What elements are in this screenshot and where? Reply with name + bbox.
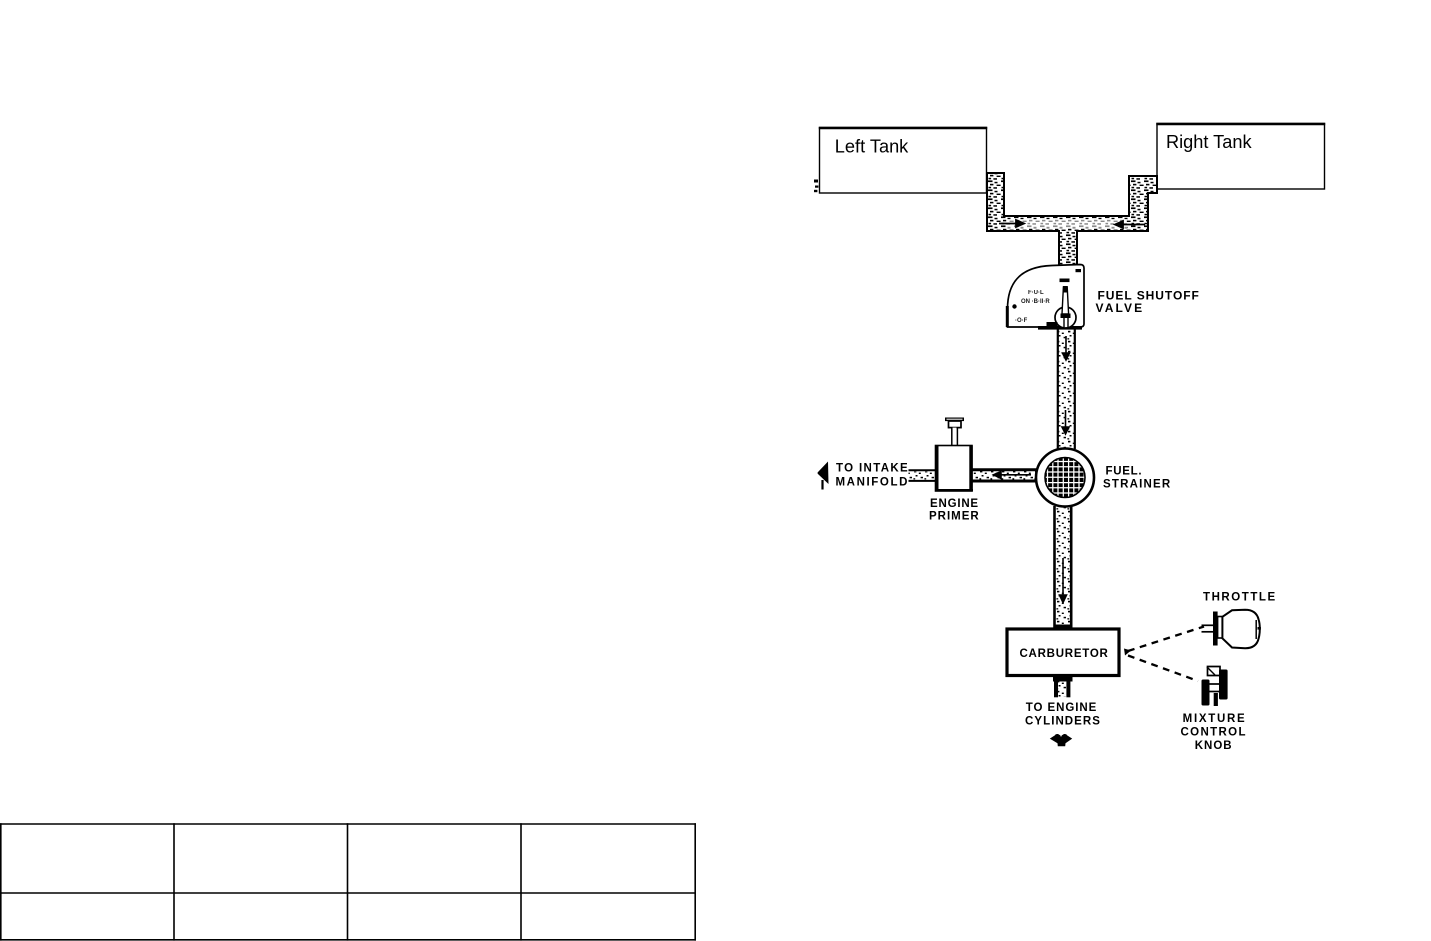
- svg-text:Right Tank: Right Tank: [1166, 132, 1253, 152]
- svg-text:TO ENGINE: TO ENGINE: [1026, 702, 1098, 714]
- svg-text:·O·F: ·O·F: [1015, 318, 1028, 324]
- svg-text:ENGINE: ENGINE: [930, 498, 979, 510]
- svg-text:PRIMER: PRIMER: [929, 511, 980, 523]
- svg-text:CARBURETOR: CARBURETOR: [1020, 648, 1109, 660]
- svg-text:F·U·L: F·U·L: [1028, 290, 1044, 296]
- svg-text:CONTROL: CONTROL: [1181, 727, 1247, 739]
- svg-text:FUEL.: FUEL.: [1106, 465, 1143, 477]
- svg-text:KNOB: KNOB: [1195, 740, 1233, 752]
- svg-text:STRAINER: STRAINER: [1103, 479, 1171, 491]
- svg-text:MANIFOLD: MANIFOLD: [836, 477, 909, 489]
- svg-text:ON ·B·II·R: ON ·B·II·R: [1021, 299, 1050, 305]
- svg-text:CYLINDERS: CYLINDERS: [1025, 716, 1101, 728]
- svg-text:THROTTLE: THROTTLE: [1203, 592, 1277, 604]
- svg-text:Left Tank: Left Tank: [835, 136, 909, 156]
- svg-text:TO INTAKE: TO INTAKE: [836, 463, 909, 475]
- svg-text:VALVE: VALVE: [1096, 301, 1145, 315]
- svg-text:MIXTURE: MIXTURE: [1183, 713, 1247, 725]
